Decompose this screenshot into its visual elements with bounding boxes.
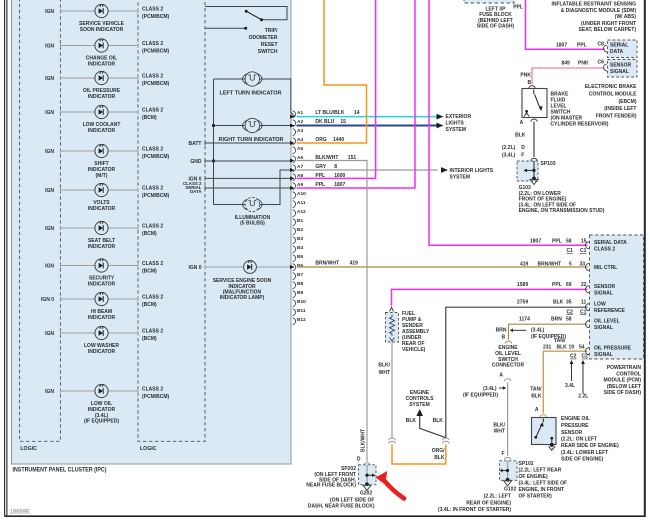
svg-text:B8: B8 — [297, 281, 303, 287]
exterior lights system arrows/text — [437, 114, 472, 133]
svg-text:(IF EQUIPPED): (IF EQUIPPED) — [84, 419, 119, 425]
svg-text:CLASS 2: CLASS 2 — [594, 246, 615, 252]
svg-text:MIL CTRL: MIL CTRL — [594, 265, 617, 271]
svg-text:MODULE (PCM): MODULE (PCM) — [604, 378, 642, 384]
illumination lamp (5 bulbs) — [214, 170, 292, 227]
svg-text:INSTRUMENT PANEL CLUSTER (IPC): INSTRUMENT PANEL CLUSTER (IPC) — [13, 468, 107, 474]
svg-text:INDICATOR: INDICATOR — [88, 282, 116, 288]
svg-text:(EBCM): (EBCM) — [618, 99, 636, 105]
wire A4 ORG 1440 from fuse block — [297, 0, 367, 143]
brake fluid level switch box — [529, 86, 536, 88]
svg-text:231: 231 — [543, 344, 552, 350]
svg-text:CLASS 2: CLASS 2 — [142, 108, 163, 114]
svg-text:OF STARTER): OF STARTER) — [519, 494, 553, 500]
svg-text:POWERTRAIN: POWERTRAIN — [607, 365, 642, 371]
svg-text:PRESSURE: PRESSURE — [561, 423, 589, 429]
svg-text:IGN: IGN — [45, 264, 54, 270]
svg-text:IGN: IGN — [45, 331, 54, 337]
svg-text:SIGNAL: SIGNAL — [594, 352, 613, 358]
svg-text:419: 419 — [520, 261, 529, 267]
svg-text:A11: A11 — [297, 200, 306, 206]
wire A2 DK BLU to exterior lights — [297, 125, 438, 127]
svg-text:(BELOW LEFT: (BELOW LEFT — [607, 384, 641, 390]
svg-text:FUSE BLOCK: FUSE BLOCK — [479, 12, 512, 18]
red highlight arrow — [383, 479, 404, 499]
splice SP103 — [531, 158, 538, 160]
svg-text:F: F — [502, 451, 505, 457]
svg-text:A1: A1 — [297, 110, 303, 116]
svg-text:IGN: IGN — [45, 389, 54, 395]
svg-text:(3.4L): (3.4L) — [531, 328, 545, 334]
service engine soon indicator — [188, 260, 291, 301]
trip/odometer reset switch — [205, 7, 287, 56]
page border frame right — [644, 0, 646, 517]
svg-text:C1: C1 — [580, 248, 587, 254]
svg-text:SENSOR: SENSOR — [561, 430, 583, 436]
svg-text:B9: B9 — [297, 290, 303, 296]
svg-text:1589: 1589 — [517, 282, 528, 288]
svg-text:INDICATOR: INDICATOR — [88, 62, 116, 68]
svg-text:LT BLU/BLK: LT BLU/BLK — [315, 110, 344, 116]
junction dot right turn — [212, 124, 215, 127]
svg-text:BLK: BLK — [553, 300, 564, 306]
svg-text:DATA: DATA — [610, 49, 624, 55]
indicator row 4: LOW COOLANT — [45, 105, 163, 134]
svg-text:BLK/WHT: BLK/WHT — [361, 429, 367, 452]
svg-text:LEFT TURN INDICATOR: LEFT TURN INDICATOR — [220, 91, 282, 97]
svg-text:SOON INDICATOR: SOON INDICATOR — [80, 27, 124, 33]
svg-text:ENGINE, IN FRONT: ENGINE, IN FRONT — [519, 487, 565, 493]
indicator row 7: SEAT BELT — [45, 221, 163, 250]
svg-text:SIDE OF ENGINE): SIDE OF ENGINE) — [561, 457, 604, 463]
svg-text:58: 58 — [566, 317, 572, 323]
svg-text:LOW: LOW — [594, 301, 606, 307]
svg-text:CONTROLS: CONTROLS — [405, 396, 434, 402]
svg-text:BRN/WHT: BRN/WHT — [315, 261, 339, 267]
svg-text:SIGNAL: SIGNAL — [594, 325, 613, 331]
svg-text:B12: B12 — [297, 317, 306, 323]
svg-text:(IF EQUIPPED): (IF EQUIPPED) — [531, 334, 566, 340]
svg-text:(INSIDE LEFT: (INSIDE LEFT — [604, 106, 636, 112]
svg-text:SENSOR: SENSOR — [610, 63, 632, 69]
svg-text:58: 58 — [566, 239, 572, 245]
svg-text:PNK: PNK — [520, 73, 531, 79]
wire PPL 1807 to PCM serial data — [429, 0, 588, 245]
3.4L / 2.2L connector arrows — [571, 362, 573, 382]
svg-text:A12: A12 — [297, 209, 306, 215]
ground G103 — [532, 177, 536, 181]
PCM row MIL CTRL — [586, 264, 590, 271]
svg-text:A5: A5 — [297, 146, 303, 152]
page border frame bottom — [5, 515, 646, 517]
indicator row 8: SECURITY — [45, 259, 163, 288]
svg-text:VEHICLE): VEHICLE) — [402, 347, 426, 353]
svg-text:A: A — [535, 407, 539, 413]
svg-text:INDICATOR: INDICATOR — [88, 244, 116, 250]
splice SP202 — [359, 465, 377, 485]
svg-text:BRN: BRN — [551, 317, 562, 323]
svg-text:ORG/: ORG/ — [432, 448, 445, 454]
svg-text:(BCM): (BCM) — [142, 231, 157, 237]
svg-text:SEAT, BELOW CARPET): SEAT, BELOW CARPET) — [579, 27, 637, 33]
svg-text:INFLATABLE RESTRAINT SENSING: INFLATABLE RESTRAINT SENSING — [551, 2, 636, 8]
svg-text:WHT: WHT — [494, 429, 505, 435]
svg-text:G202: G202 — [360, 490, 372, 496]
PCM row low reference — [586, 304, 590, 311]
svg-text:(BCM): (BCM) — [142, 336, 157, 342]
EBCM sensor signal dashed box — [608, 60, 638, 78]
svg-text:B1: B1 — [297, 218, 303, 224]
svg-text:DATA: DATA — [190, 189, 202, 194]
svg-text:33: 33 — [580, 261, 586, 267]
svg-text:BATT: BATT — [189, 141, 202, 147]
svg-text:PNK: PNK — [578, 60, 589, 66]
wire A1 LT BLU/BLK to exterior lights — [297, 116, 438, 118]
svg-text:(BCM): (BCM) — [142, 115, 157, 121]
svg-text:CONTROL MODULE: CONTROL MODULE — [589, 91, 637, 97]
instrument panel cluster IPC box — [12, 0, 292, 464]
PCM dashed box — [590, 235, 644, 359]
svg-text:BLK: BLK — [531, 393, 542, 399]
svg-text:CLASS 2: CLASS 2 — [142, 224, 163, 230]
svg-text:B11: B11 — [297, 308, 306, 314]
wire B6 BRN/WHT 419 to PCM mil ctrl — [297, 266, 588, 268]
svg-text:INDICATOR: INDICATOR — [88, 128, 116, 134]
svg-text:1807: 1807 — [334, 182, 345, 188]
svg-text:& DIAGNOSTIC MODULE (SDM): & DIAGNOSTIC MODULE (SDM) — [561, 8, 637, 14]
svg-text:849: 849 — [562, 60, 571, 66]
page border frame left — [4, 0, 6, 517]
svg-text:BRN: BRN — [496, 328, 507, 334]
svg-text:IGN: IGN — [45, 9, 54, 15]
svg-text:LOGIC: LOGIC — [140, 446, 157, 452]
svg-text:(UNDER RIGHT FRONT: (UNDER RIGHT FRONT — [581, 21, 636, 27]
svg-text:19: 19 — [569, 344, 575, 350]
svg-text:1807: 1807 — [556, 42, 567, 48]
svg-text:15: 15 — [340, 119, 346, 125]
svg-text:LIGHTS: LIGHTS — [446, 120, 465, 126]
svg-text:(PCM/BCM): (PCM/BCM) — [142, 81, 170, 87]
fuel pump and sender assembly — [390, 307, 394, 311]
svg-text:2759: 2759 — [517, 300, 528, 306]
svg-text:SWITCH: SWITCH — [258, 49, 278, 55]
wire 1174 BRN oil level signal — [509, 324, 588, 340]
wire BLK/WHT from fuel pump — [391, 343, 393, 438]
svg-text:A7: A7 — [297, 164, 303, 170]
svg-text:BLK: BLK — [515, 133, 526, 139]
svg-text:CONTROL: CONTROL — [616, 371, 641, 377]
svg-text:A3: A3 — [297, 128, 303, 134]
svg-text:(3.4L): (3.4L) — [483, 386, 497, 392]
svg-text:IGN: IGN — [45, 44, 54, 50]
svg-text:FUEL: FUEL — [402, 311, 415, 317]
svg-text:IGN: IGN — [45, 188, 54, 194]
svg-text:INDICATOR: INDICATOR — [88, 206, 116, 212]
svg-text:CLASS 2: CLASS 2 — [142, 295, 163, 301]
svg-text:14: 14 — [354, 110, 360, 116]
svg-text:GND: GND — [190, 159, 202, 165]
engine oil pressure sensor box — [532, 418, 557, 445]
indicator row 11: LOW OIL — [45, 384, 169, 424]
svg-text:ENGINE OIL: ENGINE OIL — [561, 416, 590, 422]
indicator row 5: SHIFT — [45, 144, 169, 178]
engine oil level switch connector — [505, 341, 512, 343]
svg-text:B4: B4 — [297, 245, 303, 251]
wire A6 BLK/WHT 151 down to SP202 — [297, 161, 368, 462]
inline connector arcs left — [389, 438, 396, 443]
svg-text:(3.4L: IN FRONT OF STARTER): (3.4L: IN FRONT OF STARTER) — [438, 507, 511, 513]
svg-text:IGN 0: IGN 0 — [41, 297, 54, 303]
svg-text:OF ENGINE): OF ENGINE) — [519, 474, 549, 480]
ground G202 — [365, 482, 369, 486]
svg-text:(3.4L: LEFT SIDE OF: (3.4L: LEFT SIDE OF — [519, 481, 568, 487]
IGN 0 wire to pin A8 — [205, 177, 292, 179]
indicator row 1: SERVICE VEHICLE — [45, 4, 169, 33]
svg-text:TRIP/: TRIP/ — [265, 28, 278, 34]
svg-text:B6: B6 — [297, 263, 303, 269]
svg-text:(PCM/BCM): (PCM/BCM) — [142, 394, 170, 400]
svg-text:(IF EQUIPPED): (IF EQUIPPED) — [463, 392, 498, 398]
svg-text:RIGHT TURN INDICATOR: RIGHT TURN INDICATOR — [219, 137, 284, 143]
svg-text:(5 BULBS): (5 BULBS) — [240, 221, 265, 227]
svg-text:REAR OF: REAR OF — [402, 341, 425, 347]
svg-text:(PCM/BCM): (PCM/BCM) — [142, 193, 170, 199]
svg-text:ASSEMBLY: ASSEMBLY — [402, 329, 430, 335]
svg-text:A10: A10 — [297, 191, 306, 197]
PCM row serial data class 2 — [586, 242, 590, 249]
interior lights system arrow/text — [441, 167, 494, 181]
svg-text:G103: G103 — [519, 185, 531, 191]
wire PPL 1807 fuse block to EBCM serial data — [526, 0, 605, 49]
svg-text:CLASS 2: CLASS 2 — [142, 261, 163, 267]
svg-text:186696: 186696 — [10, 510, 31, 516]
svg-text:(2.2L: ON LEFT: (2.2L: ON LEFT — [561, 436, 597, 442]
svg-text:SP103: SP103 — [541, 161, 556, 167]
svg-text:WHT: WHT — [379, 370, 390, 376]
svg-text:C1: C1 — [580, 309, 587, 315]
svg-text:15: 15 — [581, 239, 587, 245]
svg-text:(PCM/BCM): (PCM/BCM) — [142, 49, 170, 55]
svg-text:SIDE OF DASH): SIDE OF DASH) — [477, 24, 515, 30]
wire BLK/WHT down to F — [507, 383, 509, 456]
svg-text:CLASS 2: CLASS 2 — [142, 147, 163, 153]
svg-text:INTERIOR LIGHTS: INTERIOR LIGHTS — [450, 168, 494, 174]
svg-text:TAN/: TAN/ — [530, 387, 542, 393]
svg-text:CONNECTOR: CONNECTOR — [492, 363, 525, 369]
svg-text:GRY: GRY — [315, 164, 326, 170]
svg-text:IGN 0: IGN 0 — [188, 265, 201, 271]
indicator row 3: OIL PRESSURE — [45, 71, 169, 100]
svg-text:PPL: PPL — [577, 42, 587, 48]
svg-text:SYSTEM: SYSTEM — [450, 175, 471, 181]
PCM row sensor signal — [586, 286, 590, 293]
wire 1589 PPL sensor signal to fuel pump — [392, 289, 588, 305]
svg-text:B3: B3 — [297, 236, 303, 242]
svg-text:B: B — [528, 80, 532, 86]
CLASS 2 SERIAL DATA wire to pin A9 — [205, 187, 292, 189]
svg-text:FRONT FENDER): FRONT FENDER) — [596, 114, 637, 120]
svg-text:C2: C2 — [582, 354, 589, 360]
svg-text:SERIAL: SERIAL — [610, 43, 628, 49]
svg-text:SYSTEM: SYSTEM — [446, 127, 467, 133]
ground G102 — [506, 478, 510, 482]
svg-text:ELECTRONIC BRAKE: ELECTRONIC BRAKE — [585, 84, 637, 90]
svg-text:5: 5 — [569, 261, 572, 267]
svg-text:C2: C2 — [570, 354, 577, 360]
svg-text:CLASS 2: CLASS 2 — [142, 387, 163, 393]
wire 2759 BLK low reference — [446, 307, 588, 438]
svg-text:SIGNAL: SIGNAL — [594, 290, 613, 296]
left turn indicator lamp — [214, 72, 296, 117]
svg-text:35: 35 — [566, 300, 572, 306]
svg-text:A4: A4 — [297, 137, 303, 143]
svg-text:B7: B7 — [297, 272, 303, 278]
svg-text:INDICATOR LAMP): INDICATOR LAMP) — [220, 295, 265, 301]
PCM row oil level signal — [586, 321, 590, 328]
EBCM serial data dashed box — [608, 40, 638, 58]
indicator row 9: HI BEAM — [41, 292, 163, 321]
svg-text:SENSOR: SENSOR — [594, 284, 616, 290]
right turn indicator lamp — [214, 118, 292, 143]
svg-text:(BCM): (BCM) — [142, 302, 157, 308]
svg-text:(3.4L: LOWER LEFT: (3.4L: LOWER LEFT — [561, 450, 608, 456]
svg-text:A9: A9 — [297, 182, 303, 188]
(3.4L) (IF EQUIPPED) upper with left arrow — [513, 329, 526, 331]
svg-text:54: 54 — [579, 344, 585, 350]
svg-text:C2: C2 — [567, 309, 574, 315]
GND wire to pin A6 — [205, 160, 292, 162]
logic dashed box left — [20, 0, 61, 441]
wire 231 TAN/BLK oil pressure signal — [543, 351, 587, 413]
svg-text:BRN/WHT: BRN/WHT — [538, 261, 562, 267]
svg-text:SYSTEM: SYSTEM — [409, 402, 430, 408]
svg-text:CLASS 2: CLASS 2 — [142, 329, 163, 335]
svg-text:SIDE OF DASH): SIDE OF DASH) — [604, 390, 642, 396]
svg-text:B5: B5 — [297, 254, 303, 260]
svg-text:ENGINE, ON TRANSMISSION STUD): ENGINE, ON TRANSMISSION STUD) — [519, 208, 605, 214]
svg-text:(BCM): (BCM) — [142, 269, 157, 275]
wire A9 PPL 1807 up — [297, 0, 416, 188]
wire ORG/BLK U-path — [392, 445, 446, 465]
svg-text:IGN: IGN — [45, 110, 54, 116]
svg-text:A: A — [499, 373, 503, 379]
svg-text:3.4L: 3.4L — [565, 383, 575, 389]
svg-text:REFERENCE: REFERENCE — [594, 308, 626, 314]
svg-text:(ON MASTER: (ON MASTER — [551, 115, 583, 121]
svg-text:(2.2L): (2.2L) — [502, 145, 516, 151]
svg-text:D: D — [357, 457, 361, 463]
svg-text:IGN: IGN — [45, 226, 54, 232]
svg-text:CLASS 2: CLASS 2 — [142, 41, 163, 47]
ground bus vertical wire — [213, 79, 215, 205]
svg-text:BLK: BLK — [557, 344, 568, 350]
svg-text:SIGNAL: SIGNAL — [610, 69, 629, 75]
svg-text:SP102: SP102 — [519, 461, 534, 467]
svg-text:CLASS 2: CLASS 2 — [142, 186, 163, 192]
svg-text:(3.4L): (3.4L) — [502, 153, 516, 159]
inline connector arcs right — [442, 438, 449, 443]
svg-text:(PCM/BCM): (PCM/BCM) — [142, 14, 170, 20]
svg-text:1807: 1807 — [530, 239, 541, 245]
svg-text:INDICATOR: INDICATOR — [88, 94, 116, 100]
svg-text:RESET: RESET — [261, 42, 278, 48]
splice SP102 — [500, 461, 518, 481]
svg-text:2.2L: 2.2L — [578, 394, 588, 400]
svg-text:C8: C8 — [598, 42, 605, 48]
svg-text:D: D — [521, 145, 525, 151]
svg-text:1174: 1174 — [519, 317, 530, 323]
svg-text:B2: B2 — [297, 227, 303, 233]
svg-text:11: 11 — [581, 300, 587, 306]
svg-text:B: B — [502, 335, 506, 341]
svg-text:F: F — [521, 153, 524, 159]
svg-text:(M/T): (M/T) — [96, 173, 108, 179]
indicator row 6: VOLTS — [45, 183, 169, 212]
svg-text:BLK: BLK — [406, 418, 417, 424]
svg-text:BLK/: BLK/ — [493, 422, 505, 428]
svg-text:EXTERIOR: EXTERIOR — [446, 114, 472, 120]
svg-text:(2.2L: LEFT: (2.2L: LEFT — [484, 493, 511, 499]
svg-text:A: A — [520, 120, 524, 126]
svg-text:REAR OF ENGINE): REAR OF ENGINE) — [466, 500, 511, 506]
svg-text:INDICATOR: INDICATOR — [88, 349, 116, 355]
svg-text:C1: C1 — [567, 248, 574, 254]
svg-text:G102: G102 — [504, 487, 516, 493]
svg-text:CLASS 2: CLASS 2 — [142, 7, 163, 13]
left I/P fuse block — [464, 0, 514, 3]
svg-text:419: 419 — [350, 261, 359, 267]
svg-text:OIL LEVEL: OIL LEVEL — [594, 319, 620, 325]
svg-text:CYLINDER RESERVOIR): CYLINDER RESERVOIR) — [551, 122, 609, 128]
svg-text:IGN: IGN — [45, 149, 54, 155]
svg-text:INDICATOR: INDICATOR — [88, 315, 116, 321]
svg-text:8: 8 — [334, 164, 337, 170]
svg-text:IGN: IGN — [45, 76, 54, 82]
svg-text:REAR SIDE OF ENGINE): REAR SIDE OF ENGINE) — [561, 443, 619, 449]
svg-text:(PCM/BCM): (PCM/BCM) — [142, 154, 170, 160]
svg-text:22: 22 — [581, 282, 587, 288]
indicator row 10: LOW WASHER — [45, 326, 163, 355]
PCM row oil pressure signal — [586, 348, 590, 355]
connector arc at D — [364, 463, 371, 465]
svg-text:C6: C6 — [598, 60, 605, 66]
svg-text:PPL: PPL — [315, 182, 325, 188]
svg-text:BLK/: BLK/ — [378, 363, 390, 369]
junction dot gnd — [212, 159, 215, 162]
svg-text:69: 69 — [566, 282, 572, 288]
svg-text:NEAR FUSE BLOCK): NEAR FUSE BLOCK) — [306, 483, 356, 489]
svg-text:ODOMETER: ODOMETER — [249, 35, 278, 41]
svg-text:A2: A2 — [297, 119, 303, 125]
svg-text:SERIAL DATA: SERIAL DATA — [594, 240, 627, 246]
svg-text:B10: B10 — [297, 299, 306, 305]
svg-text:PPL: PPL — [552, 282, 562, 288]
svg-text:PPL: PPL — [513, 4, 523, 10]
logic dashed box right — [138, 0, 205, 441]
IPC connector pin brackets A1-B12 — [290, 110, 306, 325]
svg-text:(W/ ABS): (W/ ABS) — [615, 14, 637, 20]
svg-text:BLK: BLK — [433, 418, 444, 424]
svg-text:LOGIC: LOGIC — [20, 446, 37, 452]
svg-text:CLASS 2: CLASS 2 — [142, 74, 163, 80]
svg-text:(2.2L: LEFT REAR: (2.2L: LEFT REAR — [519, 468, 562, 474]
wire 849 PNK to EBCM sensor signal — [532, 68, 605, 85]
svg-text:PPL: PPL — [552, 239, 562, 245]
svg-text:DASH, NEAR FUSE BLOCK): DASH, NEAR FUSE BLOCK) — [308, 504, 375, 510]
svg-text:BLK: BLK — [434, 455, 445, 461]
wire A7 GRY to interior lights — [297, 169, 438, 171]
svg-text:OIL PRESSURE: OIL PRESSURE — [594, 346, 632, 352]
